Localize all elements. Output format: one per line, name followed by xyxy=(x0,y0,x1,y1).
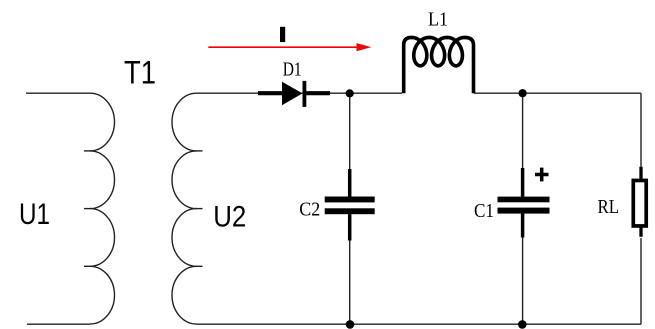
svg-text:U1: U1 xyxy=(19,198,50,231)
svg-text:C1: C1 xyxy=(474,200,494,222)
svg-text:T1: T1 xyxy=(124,54,156,90)
svg-text:C2: C2 xyxy=(299,198,320,220)
svg-text:L1: L1 xyxy=(428,8,448,30)
svg-text:U2: U2 xyxy=(213,201,246,234)
svg-text:D1: D1 xyxy=(283,59,302,81)
svg-text:RL: RL xyxy=(598,196,620,218)
